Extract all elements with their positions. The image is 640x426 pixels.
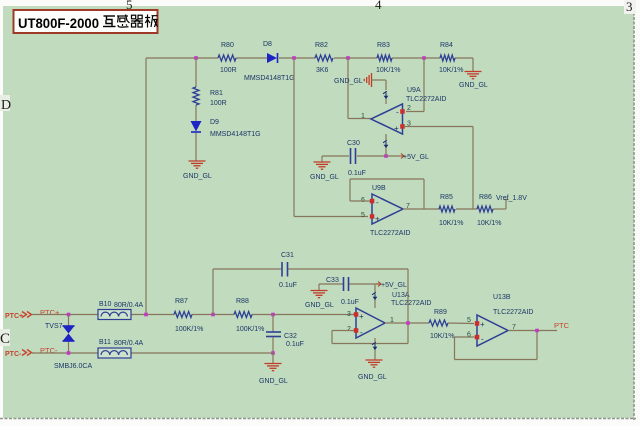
wire U9A output branch [348,58,371,119]
resistor R82 [315,42,333,74]
svg-text:GND_GL: GND_GL [305,302,334,309]
wire PTC+ rail [32,314,354,316]
svg-text:TLC2272AID: TLC2272AID [493,309,533,316]
node junction C32/B11 [271,351,275,355]
svg-text:C: C [0,331,10,347]
TVS diode TVS7 [45,315,92,371]
wire C30 rail [322,155,399,157]
svg-text:0.1uF: 0.1uF [341,299,359,306]
svg-text:Vref_1.8V: Vref_1.8V [496,195,527,202]
op-amp U9A TLC2272AID [361,87,446,134]
svg-text:GND_GL: GND_GL [259,378,288,385]
capacitor C31 [279,252,297,289]
svg-text:100R: 100R [220,67,237,74]
svg-text:R86: R86 [479,194,492,201]
svg-text:GND_GL: GND_GL [459,82,488,89]
net label Vref_1.8V [496,195,527,202]
wire U13B output [508,330,557,332]
svg-text:MMSD4148T1G: MMSD4148T1G [210,131,261,138]
svg-text:-: - [481,335,484,344]
ground GND_GL under U13A [358,360,387,381]
node junction U13A out / C31 / feedback [406,321,410,325]
svg-text:80R/0.4A: 80R/0.4A [114,302,144,309]
resistor R83 [376,42,401,74]
svg-text:10K/1%: 10K/1% [439,67,464,74]
net label PTC [554,321,570,330]
ground GND_GL right of R84 [459,72,488,90]
node junction TVS7 top [67,313,71,317]
wire +5V rail C33 [319,283,379,285]
net label PTC- [40,346,58,355]
svg-text:R84: R84 [440,42,453,49]
svg-text:SMBJ6.0CA: SMBJ6.0CA [54,363,92,370]
svg-text:+5V_GL: +5V_GL [403,154,429,161]
node junction R87/R88/C31 [211,313,215,317]
svg-text:100K/1%: 100K/1% [236,326,264,333]
zone label 3 [624,0,636,14]
resistor R89 [429,309,455,340]
zone label D [0,95,11,113]
port PTC- [5,350,32,359]
resistor R84 [439,42,464,74]
svg-text:+: + [375,215,380,224]
U13A V- power pin [372,338,377,360]
svg-text:100K/1%: 100K/1% [175,326,203,333]
svg-text:TVS7: TVS7 [45,323,63,330]
svg-text:80R/0.4A: 80R/0.4A [114,340,144,347]
power +5V_GL arrow [399,154,429,162]
svg-text:0.1uF: 0.1uF [279,282,297,289]
node junction +5V_GL / U9A V- [384,148,388,158]
U9A V+ power pin [383,91,388,104]
svg-text:GND_GL: GND_GL [310,174,339,181]
wire R84 to ground [472,58,474,71]
diode D8 [244,41,295,82]
pin 2 U13A [354,328,359,333]
resistor R81 [193,87,227,107]
node junction D8 cathode [292,56,296,60]
svg-text:TLC2272AID: TLC2272AID [391,300,431,307]
ferrite bead B11 [98,339,144,358]
pin 3 U9A [400,124,405,129]
ferrite bead B10 [98,301,144,320]
wire R89 to U13B pin5 [448,322,474,325]
svg-text:PTC+: PTC+ [5,313,23,320]
wire U13B feedback loop [455,331,538,360]
svg-text:C31: C31 [281,252,294,259]
svg-text:4: 4 [375,0,382,12]
svg-text:3: 3 [347,311,351,318]
capacitor C33 [326,277,359,306]
svg-text:+: + [480,320,485,329]
ground GND_GL left of C33 [305,284,334,309]
svg-text:GND_GL: GND_GL [358,374,387,381]
svg-text:3K6: 3K6 [316,67,329,74]
svg-text:PTC-: PTC- [40,346,58,355]
pin 5 U13B [475,321,480,326]
svg-text:C30: C30 [347,140,360,147]
title box UT800F-2000 [14,10,158,33]
op-amp U9B TLC2272AID [361,185,410,237]
svg-text:2: 2 [407,105,411,112]
svg-text:D: D [1,98,11,113]
wire U9A pin2 branch [406,58,424,112]
wire U13A output [385,322,429,324]
svg-text:R85: R85 [440,194,453,201]
ground GND_GL left of C30 [310,156,339,181]
zone label C [0,329,10,347]
svg-text:PTC-: PTC- [5,351,22,358]
svg-text:10K/1%: 10K/1% [477,220,502,227]
svg-text:U9A: U9A [407,87,421,94]
sheet border right edge [633,8,635,420]
node junction R81 top [194,56,198,60]
wire left vertical x=146 [145,58,147,314]
zone label 5 [126,0,133,12]
svg-text:100R: 100R [210,100,227,107]
svg-text:R89: R89 [434,309,447,316]
pin 3 U13A [354,312,359,317]
ground GND_GL at U9A V+ (rotated) [334,73,386,90]
svg-text:-: - [360,328,363,337]
ground GND_GL under C32 [259,364,288,386]
svg-text:+: + [394,124,399,133]
svg-text:U13A: U13A [392,292,410,299]
svg-text:B10: B10 [99,301,112,308]
svg-text:U13B: U13B [493,294,511,301]
op-amp U13A TLC2272AID [347,292,431,338]
pin 2 U9A [400,109,405,114]
svg-text:10K/1%: 10K/1% [376,67,401,74]
svg-text:UT800F-2000: UT800F-2000 [18,15,99,31]
svg-text:MMSD4148T1G: MMSD4148T1G [244,75,295,82]
zone label 4 [375,0,382,12]
wire D8 node down to U9B pin5 [294,58,368,217]
svg-text:10K/1%: 10K/1% [439,220,464,227]
svg-text:-: - [396,108,399,117]
svg-text:TLC2272AID: TLC2272AID [406,96,446,103]
capacitor C32 [266,315,304,354]
node junction U13B out [535,329,539,333]
resistor R86 [477,194,502,227]
wire U13A feedback loop [332,269,408,344]
capacitor C30 [347,140,366,177]
U9A V- power pin [383,134,388,148]
wire C32 gnd stub [272,353,274,364]
wire U9B output [403,200,509,210]
node junction left vertical / PTC+ [144,313,148,317]
svg-text:-: - [376,198,379,207]
wire R81 branch [195,58,197,161]
op-amp U13B TLC2272AID [467,294,533,346]
U13A V+ power pin [372,284,377,308]
wire U9B feedback loop [350,179,424,209]
svg-text:0.1uF: 0.1uF [348,170,366,177]
svg-text:C32: C32 [284,333,297,340]
svg-text:D8: D8 [263,41,272,48]
svg-text:1: 1 [361,113,365,120]
svg-text:+5V_GL: +5V_GL [381,282,407,289]
svg-text:R81: R81 [210,90,223,97]
svg-text:D9: D9 [210,119,219,126]
svg-text:3: 3 [626,0,633,14]
node junction TVS7 bottom [67,351,71,355]
resistor R88 [234,298,264,333]
svg-text:2: 2 [347,326,351,333]
svg-text:PTC+: PTC+ [40,308,60,317]
resistor R87 [174,298,203,333]
wire PTC- rail [32,352,273,354]
svg-text:5: 5 [361,212,365,219]
svg-text:PTC: PTC [554,321,570,330]
wire U9A pin3 to R85/R86 node [404,127,473,210]
diode D9 [191,119,261,138]
svg-text:+: + [359,312,364,321]
resistor R85 [439,194,464,227]
svg-text:GND_GL: GND_GL [183,173,212,180]
port PTC+ [5,312,32,321]
svg-text:R82: R82 [315,42,328,49]
resistor R80 [218,42,237,74]
svg-text:R80: R80 [221,42,234,49]
sheet border bottom edge [0,418,636,420]
node junction R83/R84/U9A pin2 [422,56,426,60]
svg-text:TLC2272AID: TLC2272AID [370,230,410,237]
wire C31 branch [213,269,408,315]
power +5V_GL arrow lower [376,282,407,290]
svg-text:R83: R83 [377,42,390,49]
node junction R88/C32/U13A pin3 [271,313,275,317]
wire top rail segments [146,57,473,59]
node junction R82/R83/U9A out [346,56,350,60]
svg-text:B11: B11 [99,339,111,346]
pin 6 U13B [475,335,480,340]
svg-text:5: 5 [467,317,471,324]
pin 6 U9B [370,199,375,204]
svg-text:0.1uF: 0.1uF [286,341,304,348]
svg-text:GND_GL: GND_GL [334,78,363,85]
svg-text:U9B: U9B [372,185,386,192]
svg-text:R88: R88 [236,298,249,305]
net label PTC+ [40,308,60,317]
svg-text:R87: R87 [175,298,188,305]
svg-text:C33: C33 [326,277,339,284]
svg-text:10K/1%: 10K/1% [430,333,455,340]
ground GND_GL under D9 [183,161,212,180]
pin 5 U9B [370,214,375,219]
